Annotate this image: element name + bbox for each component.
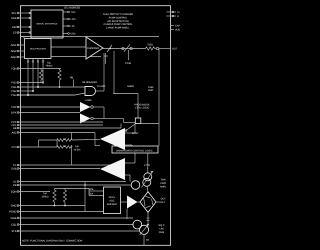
op-amp output wire	[103, 48, 145, 50]
svg-text:CS: CS	[13, 32, 17, 35]
switch S2	[122, 45, 132, 66]
svg-text:AIN2: AIN2	[11, 50, 17, 53]
label typ 100k	[41, 192, 48, 198]
switch S1	[107, 45, 112, 52]
pin SDA	[11, 17, 31, 20]
right label OUT FLT	[161, 198, 167, 205]
svg-text:A/D FB DETECTION: A/D FB DETECTION	[107, 20, 129, 23]
svg-text:EQL: EQL	[11, 224, 17, 227]
svg-text:AIN3: AIN3	[11, 56, 17, 59]
pin SUB wire to T2 output	[11, 168, 100, 171]
label typ 0.5%	[74, 145, 82, 151]
svg-text:EQN: EQN	[11, 191, 17, 194]
buffer B2	[11, 112, 135, 124]
pin STS wire	[11, 230, 139, 233]
pin EQN wire	[11, 191, 50, 194]
resistor R2 vertical	[58, 69, 61, 88]
svg-text:TRL: TRL	[70, 77, 75, 80]
svg-text:DIN: DIN	[12, 26, 17, 29]
svg-text:PG2: PG2	[11, 90, 17, 93]
svg-text:NOTE: FUNCTIONAL DIAGRAM ONLY.: NOTE: FUNCTIONAL DIAGRAM ONLY. CONNECTIO…	[22, 240, 82, 243]
wire comp net	[113, 94, 138, 119]
right label THR	[160, 179, 167, 189]
adc input wires	[89, 188, 104, 196]
svg-text:TXD: TXD	[71, 11, 76, 14]
svg-text:CTRL LOGIC: CTRL LOGIC	[135, 107, 150, 110]
pin UL wire	[13, 181, 126, 184]
pin CL wire	[13, 164, 110, 167]
svg-text:CHG: CHG	[159, 231, 165, 234]
pin AB wire	[13, 127, 121, 130]
svg-text:OUT: OUT	[172, 48, 178, 51]
svg-text:PMP: PMP	[148, 89, 154, 92]
label Typ 750k	[46, 62, 75, 88]
svg-text:VTYP: VTYP	[144, 164, 151, 167]
pin AIN3	[11, 56, 25, 59]
pin LDO	[63, 18, 76, 21]
wire mux to op-amp input	[51, 46, 86, 48]
op-amp U3 chopper	[86, 37, 103, 59]
divider resistor R4	[53, 189, 56, 206]
IC outer border	[21, 6, 171, 246]
pin DSV	[63, 33, 76, 36]
and gate U4	[82, 53, 104, 96]
svg-text:BUFFER: BUFFER	[107, 203, 117, 206]
svg-text:32K: 32K	[89, 188, 94, 191]
top right pins	[166, 11, 180, 32]
bottom right label	[159, 224, 165, 234]
svg-text:CB: CB	[13, 184, 17, 187]
svg-text:MULTIPLEXER: MULTIPLEXER	[30, 48, 46, 51]
switch S3 assembly	[121, 118, 159, 135]
pin TQN and bias wire	[11, 68, 61, 71]
pin PGND wire	[9, 211, 104, 214]
pin PG0	[11, 82, 44, 85]
pin PG1	[11, 86, 85, 89]
svg-text:LDI: LDI	[71, 25, 75, 28]
divider resistor R5	[63, 189, 66, 206]
pin WDE wire	[10, 217, 133, 220]
wire into multiplexer top	[21, 37, 32, 39]
pin TXD	[63, 11, 76, 14]
current source C2	[131, 181, 140, 190]
pin SCL	[11, 12, 31, 15]
svg-text:SERIAL INTERFACE: SERIAL INTERFACE	[36, 23, 58, 26]
varsource AC1	[142, 153, 154, 192]
svg-text:SUB: SUB	[11, 168, 17, 171]
svg-text:DUAL PFET/ACT CHARGER: DUAL PFET/ACT CHARGER	[103, 13, 133, 16]
pin AIN2	[11, 50, 25, 53]
amp T3	[121, 196, 141, 220]
svg-text:TQN: TQN	[11, 68, 17, 71]
wire right vertical rail	[158, 49, 160, 147]
buffer B1	[11, 99, 104, 118]
current source C3	[133, 220, 142, 229]
svg-text:750Ω: 750Ω	[147, 44, 153, 47]
comparator T1	[100, 124, 135, 151]
svg-text:SDA: SDA	[11, 17, 17, 20]
svg-text:CHOPPER: CHOPPER	[87, 47, 99, 50]
divider top wire	[55, 188, 90, 190]
svg-text:PG3: PG3	[11, 94, 17, 97]
svg-text:AIN1: AIN1	[11, 44, 17, 47]
svg-text:100kΩ: 100kΩ	[41, 195, 48, 198]
svg-text:CLAMP: CLAMP	[97, 85, 106, 88]
pin EQL wire	[11, 224, 133, 227]
svg-text:AGND: AGND	[127, 85, 134, 88]
svg-text:VB SPEAKER: VB SPEAKER	[82, 81, 98, 84]
resistor network row2 (R8 R9)	[11, 133, 72, 166]
svg-text:DSV: DSV	[71, 33, 76, 36]
pin CPL wire	[11, 124, 103, 127]
pin LDI	[63, 25, 75, 28]
svg-text:AMPL: AMPL	[160, 186, 167, 189]
svg-text:PG1: PG1	[11, 86, 17, 89]
svg-text:STS: STS	[11, 230, 16, 233]
svg-text:LARGE PUMP SWELL: LARGE PUMP SWELL	[106, 26, 130, 29]
pin AB2 wire	[12, 132, 100, 146]
multiplexer block U2	[25, 39, 52, 59]
svg-text:VTN: VTN	[11, 146, 16, 149]
top center description text	[103, 13, 133, 29]
svg-text:I2C ADDRESS: I2C ADDRESS	[64, 7, 80, 10]
svg-text:GAIN/POWER CONTROL LOGIC: GAIN/POWER CONTROL LOGIC	[116, 150, 153, 153]
svg-text:DPX: DPX	[11, 112, 17, 115]
switch control ticks	[104, 51, 114, 94]
pin CB wire	[13, 184, 131, 187]
svg-text:WDE: WDE	[10, 217, 16, 220]
diode bridge D1	[140, 192, 161, 227]
svg-text:LDO: LDO	[71, 18, 76, 21]
pin CS	[13, 32, 31, 35]
svg-text:PGND: PGND	[9, 211, 17, 214]
resistor R3	[145, 44, 156, 51]
pin CPX wire	[11, 121, 103, 124]
svg-text:PG0: PG0	[11, 82, 17, 85]
pin PG3	[11, 93, 85, 97]
svg-text:AB2: AB2	[12, 132, 17, 135]
svg-text:CAP: CAP	[175, 25, 180, 28]
output pin OUT	[156, 47, 177, 50]
varsource AC2	[139, 224, 149, 246]
pin AIN1	[11, 44, 25, 47]
svg-text:V-: V-	[177, 15, 179, 18]
svg-text:SDI: SDI	[89, 193, 93, 196]
svg-text:PUMP CONTROL: PUMP CONTROL	[109, 17, 128, 20]
mux output switch SW2	[32, 59, 34, 92]
vertical bus x85	[84, 182, 86, 212]
svg-text:CHARGE PUMP CONTROL: CHARGE PUMP CONTROL	[104, 23, 134, 26]
svg-text:750kΩ: 750kΩ	[46, 64, 53, 67]
comparator T2	[100, 153, 135, 182]
pin DIN	[12, 26, 31, 29]
svg-text:BUSY: BUSY	[132, 132, 139, 135]
mux output switch SW1	[27, 59, 29, 96]
pin PG2	[11, 90, 34, 93]
mux output switch SW4	[42, 59, 44, 83]
wire VDD rail top	[21, 36, 160, 38]
pin GND wire	[11, 205, 85, 208]
svg-text:COM: COM	[125, 62, 131, 65]
serial interface block U1	[31, 10, 63, 38]
mux output switch SW3	[37, 59, 39, 88]
prog control label	[134, 103, 150, 109]
wire mux lower to right	[51, 56, 101, 58]
svg-text:FLT: FLT	[161, 201, 166, 204]
svg-text:SCL: SCL	[11, 12, 17, 15]
svg-text:±0.5%: ±0.5%	[74, 148, 82, 151]
control logic thin box	[112, 146, 158, 153]
svg-text:GND: GND	[11, 205, 17, 208]
resistor R1 vertical	[39, 69, 42, 83]
svg-text:TMP: TMP	[11, 106, 17, 109]
adc block U5	[104, 187, 121, 214]
svg-text:1 AMP: 1 AMP	[85, 99, 93, 102]
svg-text:AB: AB	[13, 127, 17, 130]
resistor network row1 (R6 R7)	[39, 139, 101, 142]
svg-text:VDD: VDD	[175, 29, 180, 32]
